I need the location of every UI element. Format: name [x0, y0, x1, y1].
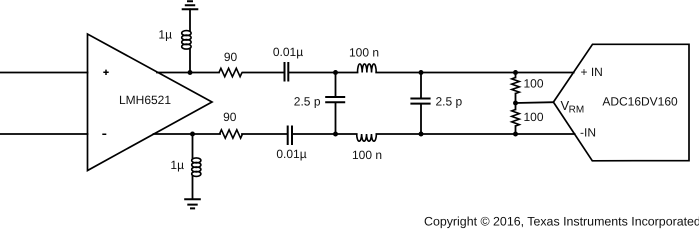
- svg-text:Copyright © 2016, Texas Instru: Copyright © 2016, Texas Instruments Inco…: [424, 214, 699, 228]
- svg-text:100: 100: [524, 110, 544, 124]
- svg-text:100: 100: [524, 76, 544, 90]
- svg-text:0.01µ: 0.01µ: [273, 45, 303, 59]
- svg-text:90: 90: [223, 110, 237, 124]
- svg-text:1µ: 1µ: [158, 27, 172, 41]
- svg-text:2.5 p: 2.5 p: [294, 94, 321, 108]
- svg-text:-IN: -IN: [580, 126, 596, 140]
- svg-text:RM: RM: [569, 105, 585, 116]
- svg-text:90: 90: [224, 50, 238, 64]
- svg-text:100 n: 100 n: [352, 148, 382, 162]
- svg-text:0.01µ: 0.01µ: [276, 147, 306, 161]
- svg-text:LMH6521: LMH6521: [119, 93, 171, 107]
- svg-text:1µ: 1µ: [170, 158, 184, 172]
- svg-text:100 n: 100 n: [349, 46, 379, 60]
- svg-text:2.5 p: 2.5 p: [436, 94, 463, 108]
- svg-text:ADC16DV160: ADC16DV160: [602, 95, 678, 109]
- svg-text:+ IN: + IN: [581, 65, 603, 79]
